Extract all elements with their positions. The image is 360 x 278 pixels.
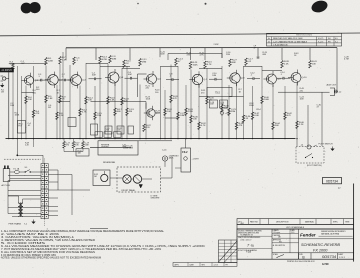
svg-text:470: 470 [66, 144, 69, 146]
svg-text:GRN WHT: GRN WHT [151, 197, 161, 199]
svg-text:6.8K: 6.8K [255, 115, 260, 117]
svg-text:FRONT PANEL: FRONT PANEL [122, 189, 137, 192]
svg-text:DRIVER: DRIVER [101, 147, 109, 149]
svg-text:10K: 10K [88, 100, 92, 102]
svg-text:4.7M: 4.7M [344, 59, 349, 61]
svg-text:4.7K: 4.7K [200, 55, 205, 57]
svg-text:Q-10: Q-10 [302, 77, 308, 79]
svg-text:100K: 100K [146, 99, 151, 101]
svg-text:REVERB PAN: REVERB PAN [103, 161, 116, 164]
svg-text:SHEET: SHEET [338, 254, 343, 256]
svg-text:1.8K: 1.8K [48, 98, 53, 100]
svg-text:F-1 1A: F-1 1A [14, 167, 20, 170]
svg-text:5.6K: 5.6K [110, 100, 115, 102]
svg-text:10K: 10K [312, 63, 316, 65]
svg-text:2 KW: 2 KW [214, 44, 219, 46]
svg-text:C-17 CHANGED FROM .02 SEE TAB: C-17 CHANGED FROM .02 SEE TABLE [273, 40, 308, 43]
svg-text:+12V: +12V [225, 113, 230, 115]
svg-text:PWR TRANS: PWR TRANS [9, 223, 22, 226]
svg-text:11-5: 11-5 [291, 232, 294, 234]
svg-text:ITEM: ITEM [345, 221, 350, 223]
svg-text:40M: 40M [112, 58, 116, 60]
svg-text:SCHEMATIC-REVERB: SCHEMATIC-REVERB [301, 243, 340, 247]
svg-text:4.7K: 4.7K [201, 125, 206, 127]
svg-text:75-2: 75-2 [215, 91, 220, 94]
svg-text:FX 1000: FX 1000 [313, 248, 328, 252]
svg-text:47K: 47K [173, 98, 177, 100]
svg-text:6-5-75: 6-5-75 [318, 38, 323, 40]
svg-text:2.2K: 2.2K [284, 63, 289, 65]
svg-text:1M: 1M [1, 92, 4, 94]
svg-text:10K: 10K [167, 111, 171, 113]
svg-text:Fender: Fender [300, 232, 317, 237]
svg-text:1.5K: 1.5K [62, 59, 67, 61]
svg-text:68K: 68K [232, 62, 236, 64]
svg-text:PART NO: PART NO [250, 220, 258, 223]
svg-text:100K: 100K [264, 99, 270, 101]
svg-text:PRINTED IN U.S.A. FORM 5M-107: PRINTED IN U.S.A. FORM 5M-1074 [287, 260, 315, 263]
svg-text:25M: 25M [210, 104, 214, 106]
svg-text:4.7K: 4.7K [207, 64, 212, 66]
svg-text:1 OF 1: 1 OF 1 [339, 257, 346, 259]
svg-text:AC PLUG: AC PLUG [2, 184, 11, 187]
svg-text:6-5: 6-5 [335, 38, 338, 40]
svg-text:10M: 10M [128, 74, 132, 76]
svg-text:47K: 47K [239, 125, 243, 127]
svg-text:25M: 25M [226, 54, 230, 56]
svg-text:10M: 10M [180, 115, 184, 117]
svg-text:0D5734: 0D5734 [322, 254, 337, 259]
svg-text:S-1: S-1 [25, 167, 28, 169]
svg-text:10M: 10M [300, 99, 304, 101]
svg-text:5M: 5M [48, 107, 51, 109]
svg-text:NOTES: UNLESS OTHERWISE SPECIF: NOTES: UNLESS OTHERWISE SPECIFIED VALUES… [1, 257, 101, 260]
svg-text:47: 47 [254, 47, 256, 49]
svg-text:FX-2: FX-2 [182, 151, 188, 154]
svg-text:10M: 10M [212, 75, 216, 77]
svg-text:9-1: 9-1 [335, 41, 338, 43]
svg-text:100K: 100K [15, 115, 20, 117]
svg-text:2.2K: 2.2K [299, 124, 304, 126]
svg-text:DESCRIPTION: DESCRIPTION [276, 221, 289, 223]
svg-text:+ LIGHT: + LIGHT [192, 159, 200, 161]
svg-text:47K: 47K [36, 113, 40, 115]
svg-text:25M: 25M [106, 130, 110, 132]
svg-text:100M 50M: 100M 50M [123, 148, 133, 150]
svg-text:REMOVED R-31 WAS 470 K OHM: REMOVED R-31 WAS 470 K OHM [273, 37, 303, 40]
svg-text:MATERIAL: MATERIAL [305, 220, 314, 223]
svg-text:5M: 5M [129, 111, 132, 113]
svg-text:SPEC: SPEC [333, 221, 339, 223]
svg-text:4-7-75: 4-7-75 [214, 264, 219, 266]
svg-text:(FOOT SWITCH): (FOOT SWITCH) [307, 165, 322, 167]
svg-text:UNLESS OTHERWISE SPECIFIED: UNLESS OTHERWISE SPECIFIED [238, 231, 263, 233]
svg-text:JACK: JACK [169, 156, 175, 159]
svg-text:FOOT SWITCH: FOOT SWITCH [319, 143, 334, 145]
svg-text:± 1/64 ± .005 ± 1°: ± 1/64 ± .005 ± 1° [240, 239, 252, 241]
svg-text:2.2K: 2.2K [59, 115, 64, 117]
svg-text:4.7K: 4.7K [82, 112, 87, 114]
svg-text:AUX OUT: AUX OUT [327, 83, 337, 86]
svg-text:JW: JW [278, 237, 281, 239]
svg-text:7 ¼: 7 ¼ [247, 243, 254, 248]
svg-text:50M: 50M [85, 144, 89, 146]
svg-text:56K: 56K [275, 125, 279, 127]
svg-text:25M: 25M [97, 115, 101, 117]
svg-text:10K: 10K [28, 99, 32, 101]
svg-text:50M: 50M [161, 54, 165, 56]
svg-text:25M: 25M [142, 61, 146, 63]
svg-text:LIST OF MATERIALS: LIST OF MATERIALS [286, 226, 305, 229]
svg-text:100K: 100K [156, 113, 161, 115]
svg-text:12.5M: 12.5M [322, 264, 328, 266]
svg-text:1M: 1M [94, 176, 97, 178]
svg-text:10M: 10M [220, 104, 224, 106]
svg-text:A. FULLERTON: A. FULLERTON [273, 244, 286, 247]
svg-text:9-1-75: 9-1-75 [318, 41, 323, 43]
svg-text:470K: 470K [102, 59, 108, 61]
svg-text:10M: 10M [10, 105, 14, 107]
svg-text:220K: 220K [188, 111, 194, 113]
svg-text:220K: 220K [48, 60, 54, 62]
svg-text:R E V I S I O N S: R E V I S I O N S [296, 35, 312, 37]
svg-text:J-1 INPUT: J-1 INPUT [1, 70, 12, 72]
svg-text:C R-40 WAS 10K: C R-40 WAS 10K [273, 44, 288, 47]
svg-text:10K: 10K [193, 119, 197, 121]
svg-text:R.Lopez: R.Lopez [274, 232, 281, 234]
svg-text:25M: 25M [231, 111, 235, 113]
svg-text:0D5734: 0D5734 [326, 180, 338, 184]
svg-text:100K: 100K [193, 64, 199, 66]
svg-text:10M: 10M [92, 75, 96, 77]
